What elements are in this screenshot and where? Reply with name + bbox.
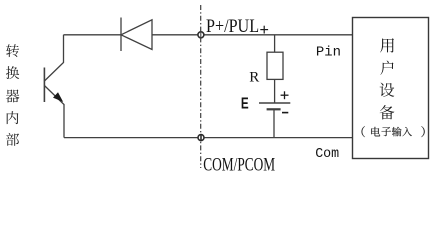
svg-text:P+/PUL: P+/PUL bbox=[206, 16, 259, 37]
svg-text:Com: Com bbox=[315, 146, 339, 162]
svg-text:Pin: Pin bbox=[316, 45, 341, 61]
svg-text:E: E bbox=[241, 95, 249, 112]
svg-text:COM/PCOM: COM/PCOM bbox=[203, 155, 275, 176]
svg-text:R: R bbox=[249, 69, 259, 85]
